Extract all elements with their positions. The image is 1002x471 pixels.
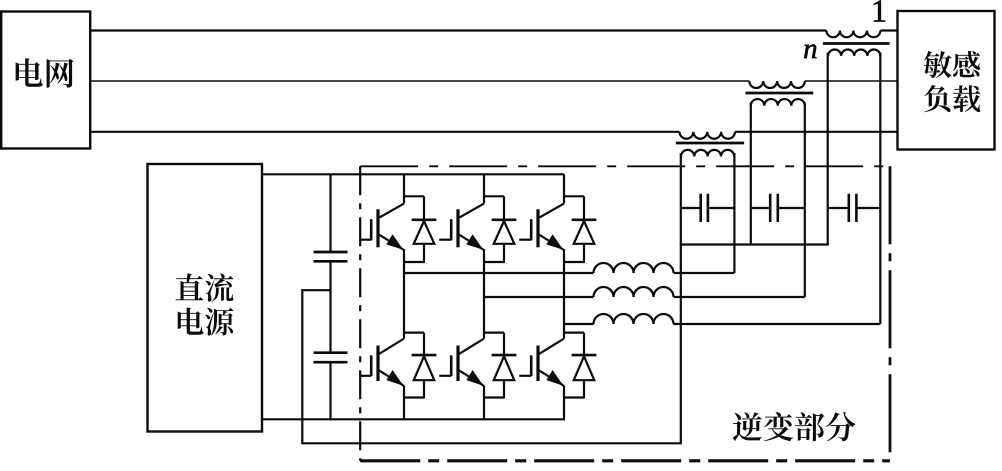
wire T3 secondary right terminal down to inductor L1 output <box>733 153 735 273</box>
transistor Q4 emitter arrowhead <box>388 372 402 385</box>
inverter enclosure left border (dash-dot) <box>359 166 361 461</box>
transformer T1 core bar <box>823 42 890 45</box>
transistor Q6 emitter lead <box>563 386 565 420</box>
transistor Q1 emitter diagonal <box>379 235 404 250</box>
transistor Q4 emitter diagonal <box>379 371 404 386</box>
transistor Q2 gate bar <box>450 219 453 240</box>
transistor Q3 emitter arrowhead <box>548 236 562 249</box>
diode D2 anode junction wire <box>484 261 504 263</box>
label 电源 (line 2) <box>178 308 234 336</box>
sensitive load box (敏感负载) <box>898 11 995 150</box>
transistor Q1 collector lead <box>403 174 405 203</box>
wire T2 secondary left terminal down to common node <box>750 103 752 246</box>
diode D3 anode lead <box>583 244 585 263</box>
label 直流 (line 1) <box>176 273 234 301</box>
label 电网 <box>16 58 74 88</box>
wire phase C: T3 to load box <box>735 131 898 133</box>
transistor Q2 collector lead <box>483 174 485 203</box>
wire inductor L3 output to transformer secondary <box>674 323 881 325</box>
capacitor Cd2 (lower DC-link) <box>314 353 348 363</box>
wire leg midpoint vertical (emitter Q1 to collector Q4) <box>403 249 405 338</box>
transistor Q2 collector diagonal <box>459 204 484 218</box>
transistor Q2 body bar <box>456 209 459 247</box>
wire T1 secondary right terminal down to inductor L3 output <box>879 53 881 325</box>
transformer T1 secondary winding <box>828 50 880 56</box>
transistor Q3 emitter diagonal <box>539 235 564 250</box>
transistor Q1 collector diagonal <box>379 204 404 218</box>
capacitor Cf1 (filter, phase C branch) <box>681 194 735 222</box>
diode D5 cathode lead <box>503 333 505 356</box>
wire inductor L2 output to transformer secondary <box>674 296 805 298</box>
diode D4 anode lead <box>423 380 425 398</box>
wire DC-link lower segment <box>329 363 331 419</box>
transistor Q1 gate lead <box>359 239 371 241</box>
transistor Q4 collector diagonal <box>379 339 404 354</box>
diode D5 triangle <box>494 356 515 380</box>
wire T1 secondary left terminal down to common node <box>827 53 829 246</box>
wire DC-link midpoint tap <box>301 289 330 291</box>
wire phase A: grid to transformer T1 <box>91 29 827 31</box>
inverter enclosure top border (dash-dot) <box>360 165 890 167</box>
diode D5 anode lead <box>503 380 505 398</box>
label 敏感 (line 1) <box>924 51 980 78</box>
diode D4 anode junction wire <box>404 396 424 398</box>
diode D3 cathode lead <box>583 196 585 220</box>
diode D3 cathode bar <box>572 219 597 222</box>
label 负载 (line 2) <box>924 85 980 112</box>
wire phase output row from leg to inductor L2 <box>484 296 594 298</box>
wire T3 secondary left terminal down through common node to neutral return <box>680 153 682 443</box>
transistor Q5 emitter arrowhead <box>468 372 482 385</box>
transformer T2 primary winding <box>749 81 805 88</box>
wire phase B: T2 to load box <box>805 80 898 82</box>
transistor Q5 emitter lead <box>483 386 485 420</box>
diode D3 triangle <box>574 221 595 244</box>
wire DC-link upper segment <box>329 174 331 251</box>
diode D4 triangle <box>414 356 435 380</box>
transistor Q1 gate bar <box>370 219 373 240</box>
wire T2 secondary right terminal down to inductor L2 output <box>804 103 806 298</box>
transistor Q2 gate lead <box>439 239 451 241</box>
transistor Q6 collector branch to diode <box>564 332 584 334</box>
capacitor Cf2 (filter, phase B branch) <box>751 194 805 222</box>
diode D6 anode junction wire <box>564 396 584 398</box>
capacitor Cd1 (upper DC-link) <box>314 252 348 261</box>
transformer T2 core bar <box>746 92 814 95</box>
transistor Q5 collector branch to diode <box>484 332 504 334</box>
inverter enclosure right border (dash-dot) <box>889 166 892 461</box>
transistor Q4 gate lead <box>359 375 371 377</box>
transformer T2 secondary winding <box>751 99 805 106</box>
transistor Q2 emitter arrowhead <box>468 236 482 249</box>
diode D1 anode junction wire <box>404 261 424 263</box>
diode D1 cathode lead <box>423 196 425 220</box>
diode D6 cathode bar <box>572 354 597 357</box>
wire phase output row from leg to inductor L1 <box>404 272 594 274</box>
transistor Q4 emitter lead <box>403 386 405 420</box>
wire leg midpoint vertical (emitter Q2 to collector Q5) <box>483 249 485 338</box>
wire DC+ rail <box>262 173 564 175</box>
DC source box (直流电源) <box>148 164 263 432</box>
diode D1 anode lead <box>423 244 425 263</box>
wire phase B: grid to transformer T2 <box>91 80 750 82</box>
transistor Q5 collector diagonal <box>459 339 484 354</box>
diode D4 cathode bar <box>412 354 437 357</box>
transistor Q1 emitter arrowhead <box>388 236 402 249</box>
transformer T1 primary winding <box>826 31 880 38</box>
transistor Q6 emitter diagonal <box>539 371 564 386</box>
inverter enclosure bottom border (dash-dot) <box>360 459 890 462</box>
diode D6 anode lead <box>583 380 585 398</box>
transistor Q1 body bar <box>376 209 379 247</box>
diode D6 triangle <box>574 356 595 380</box>
transistor Q4 gate bar <box>370 355 373 376</box>
inductor L1 <box>594 263 674 273</box>
transistor Q2 collector branch to diode <box>484 195 504 197</box>
transistor Q5 gate lead <box>439 375 451 377</box>
wire phase output row from leg to inductor L3 <box>564 323 594 325</box>
diode D5 cathode bar <box>492 354 517 357</box>
wire neutral return horizontal (common node to DC midpoint) <box>302 442 682 444</box>
diode D4 cathode lead <box>423 333 425 356</box>
diode D1 cathode bar <box>412 219 437 222</box>
transformer T3 primary winding <box>680 132 735 139</box>
transformer T3 core bar <box>676 142 744 145</box>
transistor Q5 body bar <box>456 346 459 382</box>
diode D3 anode junction wire <box>564 261 584 263</box>
transistor Q3 body bar <box>536 209 539 247</box>
transistor Q4 collector branch to diode <box>404 332 424 334</box>
transistor Q6 gate bar <box>530 355 533 376</box>
wire DC-link middle segment <box>329 263 331 352</box>
inductor L2 <box>594 287 674 297</box>
transistor Q3 gate bar <box>530 219 533 240</box>
transistor Q4 body bar <box>376 346 379 382</box>
transistor Q5 gate bar <box>450 355 453 376</box>
transistor Q3 collector lead <box>563 174 565 203</box>
transformer T3 secondary winding <box>681 150 734 157</box>
wire phase A: T1 to load box <box>880 29 897 31</box>
transistor Q2 emitter diagonal <box>459 235 484 250</box>
inductor L3 <box>594 314 674 324</box>
diode D6 cathode lead <box>583 333 585 356</box>
transistor Q6 gate lead <box>519 375 531 377</box>
diode D2 anode lead <box>503 244 505 263</box>
label n (turns ratio, T1 secondary) <box>804 45 816 59</box>
wire DC- rail <box>262 418 565 420</box>
label 1 (turns ratio, T1 primary) <box>874 1 885 22</box>
grid source box (电网) <box>1 12 90 149</box>
transistor Q6 collector diagonal <box>539 339 564 354</box>
transistor Q6 emitter arrowhead <box>548 372 562 385</box>
transistor Q3 collector diagonal <box>539 204 564 218</box>
label 逆变部分 <box>733 412 856 441</box>
wire inductor L1 output to transformer secondary <box>674 272 735 274</box>
diode D5 anode junction wire <box>484 396 504 398</box>
transistor Q3 gate lead <box>519 239 531 241</box>
wire leg midpoint vertical (emitter Q3 to collector Q6) <box>563 249 565 338</box>
wire common node joining secondary left terminals <box>680 243 829 245</box>
wire phase C: grid to transformer T3 <box>91 131 680 133</box>
transistor Q5 emitter diagonal <box>459 371 484 386</box>
capacitor Cf3 (filter, phase A branch) <box>828 194 881 222</box>
diode D2 cathode lead <box>503 196 505 220</box>
wire neutral return vertical at DC midpoint <box>301 289 303 444</box>
transistor Q3 collector branch to diode <box>564 195 584 197</box>
diode D2 triangle <box>494 221 515 244</box>
diode D2 cathode bar <box>492 219 517 222</box>
diode D1 triangle <box>414 221 435 244</box>
transistor Q1 collector branch to diode <box>404 195 424 197</box>
transistor Q6 body bar <box>536 346 539 382</box>
